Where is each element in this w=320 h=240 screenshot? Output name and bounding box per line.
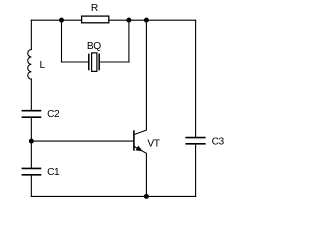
wire base (node A to transistor base) <box>31 140 134 142</box>
resistor R <box>82 3 109 23</box>
crystal BQ <box>87 41 101 72</box>
node emitter-bottom junction <box>144 194 149 199</box>
wire crystal branch right vertical <box>128 20 130 62</box>
wire emitter (transistor to bottom rail) <box>134 146 147 196</box>
svg-text:BQ: BQ <box>87 41 101 52</box>
node top-left junction <box>59 18 64 23</box>
wire C2 to node A <box>30 118 32 168</box>
wire crystal branch left vertical <box>61 20 63 62</box>
capacitor C2 <box>22 109 60 120</box>
svg-text:R: R <box>91 3 98 14</box>
wire inductor to C2 <box>30 79 32 110</box>
wire top rail <box>31 19 195 21</box>
capacitor C1 <box>22 167 60 178</box>
wire right rail upper (top to C3) <box>195 20 197 137</box>
wire bottom rail <box>31 195 195 197</box>
capacitor C3 <box>185 136 224 147</box>
svg-text:C3: C3 <box>212 136 225 147</box>
wire collector (transistor to top rail) <box>134 20 147 134</box>
wire left rail upper (top to inductor) <box>30 20 32 49</box>
svg-text:VT: VT <box>147 139 159 150</box>
wire node A to C1 handled above; wire C1 to bottom <box>30 175 32 196</box>
wire crystal branch left horizontal <box>62 61 89 63</box>
node top-mid junction <box>126 18 131 23</box>
inductor L coil <box>28 50 32 80</box>
svg-text:C1: C1 <box>47 167 60 178</box>
wire crystal branch right horizontal <box>99 61 129 63</box>
svg-text:L: L <box>40 60 46 71</box>
node collector junction <box>144 18 149 23</box>
node A (C2/C1/base) junction <box>29 139 34 144</box>
svg-text:C2: C2 <box>47 109 60 120</box>
transistor VT <box>134 130 160 151</box>
wire right rail lower (C3 to bottom) <box>195 144 197 196</box>
